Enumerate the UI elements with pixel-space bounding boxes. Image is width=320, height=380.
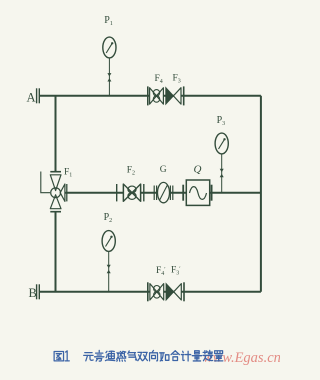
svg-text:P3: P3 [217,115,226,127]
svg-text:B: B [29,286,37,300]
svg-text:G: G [160,165,167,175]
svg-text:F3′: F3′ [171,266,181,277]
svg-text:F4: F4 [155,74,163,85]
svg-text:A: A [27,91,36,105]
svg-text:F3: F3 [173,74,181,85]
svg-text:Q: Q [194,164,202,176]
svg-text:F4′: F4′ [156,266,166,277]
svg-text:P1: P1 [104,15,113,27]
svg-text:F2: F2 [127,166,135,177]
svg-text:P2: P2 [104,212,113,224]
svg-text:F1: F1 [64,168,72,179]
